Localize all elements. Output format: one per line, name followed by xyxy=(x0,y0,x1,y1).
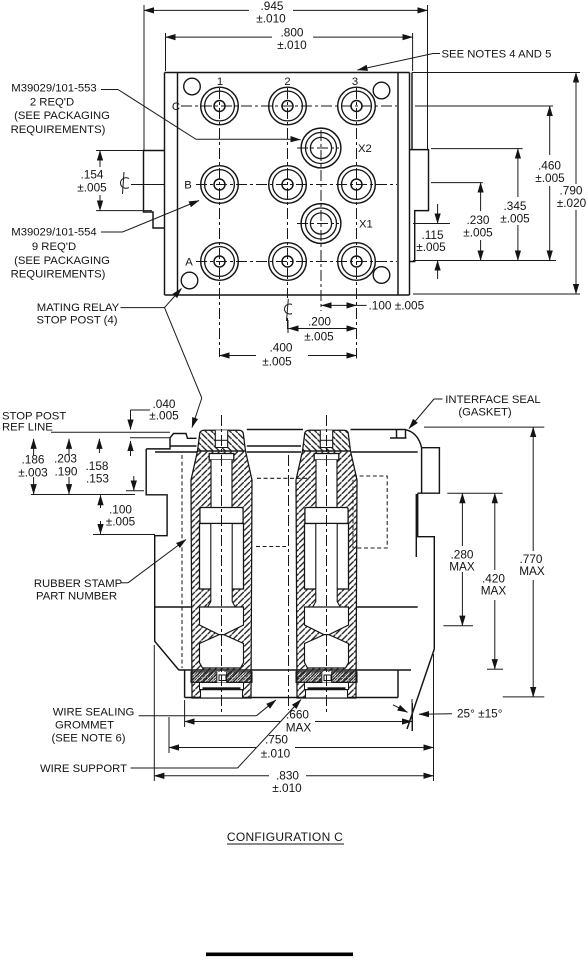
svg-text:(SEE PACKAGING: (SEE PACKAGING xyxy=(14,110,110,122)
svg-text:B: B xyxy=(184,180,192,192)
svg-text:MAX: MAX xyxy=(286,720,312,734)
dimension .750 +-.010 xyxy=(169,654,434,781)
svg-text:3: 3 xyxy=(352,76,358,88)
svg-text:2 REQ'D: 2 REQ'D xyxy=(30,96,74,108)
contact C2 xyxy=(269,87,307,125)
hidden lines (dashed) xyxy=(182,455,387,668)
svg-text:X1: X1 xyxy=(359,219,373,231)
dimension .800 +-.010 xyxy=(166,33,413,71)
mating relay stop post hole top-right xyxy=(373,82,390,99)
svg-text:.100 ±.005: .100 ±.005 xyxy=(369,299,425,313)
svg-text:±.005: ±.005 xyxy=(149,408,179,422)
dimension .100 +-.005 (left) xyxy=(93,495,155,534)
svg-text:M39029/101-553: M39029/101-553 xyxy=(11,83,96,95)
centerline symbol row B xyxy=(120,172,164,194)
dimension .280 MAX xyxy=(461,493,463,626)
contact X1 xyxy=(301,204,341,244)
contact A2 xyxy=(269,243,307,281)
svg-text:INTERFACE SEAL: INTERFACE SEAL xyxy=(445,394,540,406)
svg-text:25° ±15°: 25° ±15° xyxy=(457,707,503,721)
svg-text:(SEE NOTE 6): (SEE NOTE 6) xyxy=(51,733,125,745)
label MATING RELAY STOP POST (4) xyxy=(37,289,202,428)
wire support tray xyxy=(179,670,411,698)
centerline column 3 xyxy=(356,88,358,359)
svg-text:±.020: ±.020 xyxy=(557,196,587,210)
svg-text:SEE NOTES 4 AND 5: SEE NOTES 4 AND 5 xyxy=(442,49,552,61)
dimension .945 +-.010 (overall width) xyxy=(144,5,428,151)
svg-text:MAX: MAX xyxy=(449,560,475,574)
svg-text:.153: .153 xyxy=(86,472,109,486)
dimension .200 +-.005 xyxy=(288,320,357,333)
contact B1 xyxy=(201,166,239,204)
svg-text:(GASKET): (GASKET) xyxy=(458,407,512,419)
cavity / contact assembly right xyxy=(296,415,357,713)
label INTERFACE SEAL (GASKET) xyxy=(409,394,541,429)
svg-text:PART NUMBER: PART NUMBER xyxy=(36,591,117,603)
centerline X1 xyxy=(297,223,339,225)
view centerline between cavities xyxy=(288,455,290,710)
svg-text:STOP POST (4): STOP POST (4) xyxy=(37,315,118,327)
svg-text:(SEE PACKAGING: (SEE PACKAGING xyxy=(14,255,110,267)
svg-text:REQUIREMENTS): REQUIREMENTS) xyxy=(11,269,106,281)
label WIRE SUPPORT xyxy=(40,700,301,776)
mating relay stop post hole top-left xyxy=(184,78,201,95)
contact A1 xyxy=(201,243,239,281)
connector body (face view) outline xyxy=(165,73,413,296)
svg-text:RUBBER STAMP: RUBBER STAMP xyxy=(34,578,122,590)
cavity / contact assembly left xyxy=(191,415,252,713)
dimension .770 MAX xyxy=(532,427,534,697)
label M39029/101-553 xyxy=(11,83,301,140)
dimensions .186/.203/.190/.158/.153 stack xyxy=(31,439,144,495)
svg-text:±.005: ±.005 xyxy=(416,240,446,254)
svg-text:CONFIGURATION C: CONFIGURATION C xyxy=(227,830,343,844)
centerline row C xyxy=(181,105,397,107)
dimension .100 +-.005 xyxy=(322,304,367,306)
svg-text:.154: .154 xyxy=(81,168,104,182)
svg-text:9 REQ'D: 9 REQ'D xyxy=(32,241,76,253)
svg-text:MATING RELAY: MATING RELAY xyxy=(37,302,120,314)
svg-text:±.005: ±.005 xyxy=(500,212,530,226)
contact B2 xyxy=(269,166,307,204)
dimension .830 +-.010 xyxy=(154,645,433,781)
centerline column X xyxy=(320,130,322,311)
svg-text:±.005: ±.005 xyxy=(463,226,493,240)
mating relay stop post hole bottom-left xyxy=(181,272,198,289)
svg-text:±.005: ±.005 xyxy=(262,354,292,368)
contact X2 xyxy=(301,128,341,168)
svg-text:.400: .400 xyxy=(270,340,293,354)
label SEE NOTES 4 AND 5 xyxy=(358,49,552,71)
svg-text:REF LINE: REF LINE xyxy=(2,422,53,434)
dimension .660 MAX xyxy=(185,699,412,731)
svg-text:.190: .190 xyxy=(55,465,78,479)
section body outline right side xyxy=(407,448,439,729)
svg-text:1: 1 xyxy=(217,76,223,88)
dimension .115 +-.005 xyxy=(437,204,439,279)
svg-text:±.003: ±.003 xyxy=(18,466,48,480)
label RUBBER STAMP PART NUMBER xyxy=(34,540,186,603)
svg-text:MAX: MAX xyxy=(519,564,545,578)
contact A3 xyxy=(338,243,376,281)
right polarizing wing xyxy=(410,150,429,262)
label WIRE SEALING GROMMET (SEE NOTE 6) xyxy=(51,700,275,745)
svg-text:2: 2 xyxy=(284,76,290,88)
svg-text:.203: .203 xyxy=(54,452,77,466)
contact C3 xyxy=(338,87,376,125)
svg-text:±.010: ±.010 xyxy=(277,38,307,52)
svg-text:WIRE SEALING: WIRE SEALING xyxy=(53,707,135,719)
svg-text:±.005: ±.005 xyxy=(77,181,107,195)
extension lines right of section xyxy=(424,427,544,697)
contact C1 xyxy=(201,87,239,125)
interior wall line right xyxy=(415,494,417,557)
svg-text:REQUIREMENTS): REQUIREMENTS) xyxy=(11,124,106,136)
dimension .460 +-.005 xyxy=(549,106,551,261)
svg-text:C: C xyxy=(172,101,180,113)
centerline column 1 xyxy=(219,88,221,357)
svg-text:±.010: ±.010 xyxy=(256,12,286,26)
dimension .400 +-.005 xyxy=(220,355,357,357)
dimension 25 deg +-15 deg xyxy=(393,703,452,731)
label M39029/101-554 xyxy=(11,201,199,281)
dimension .154 +-.005 with extension lines xyxy=(96,151,152,211)
svg-text:X2: X2 xyxy=(358,143,372,155)
svg-text:±.010: ±.010 xyxy=(272,781,302,795)
svg-text:M39029/101-554: M39029/101-554 xyxy=(11,227,96,239)
section body outline left side xyxy=(146,430,421,671)
svg-text:±.005: ±.005 xyxy=(106,515,136,529)
svg-text:.660: .660 xyxy=(286,707,309,721)
svg-text:±.005: ±.005 xyxy=(304,330,334,344)
svg-text:±.010: ±.010 xyxy=(261,746,291,760)
section view: stop post ref lines xyxy=(51,432,170,438)
dimension .230 +-.005 xyxy=(480,183,482,261)
centerline column 2 xyxy=(287,88,289,332)
dimension .040 +-.005 xyxy=(131,410,151,456)
contact B3 xyxy=(338,166,376,204)
body interior step lines xyxy=(155,606,418,608)
svg-text:.200: .200 xyxy=(308,314,331,328)
footer rule bar xyxy=(206,953,353,957)
extension lines right side xyxy=(412,73,580,295)
svg-text:A: A xyxy=(185,257,193,269)
dimension .345 +-.005 xyxy=(517,149,519,261)
svg-text:.186: .186 xyxy=(22,453,45,467)
mating relay stop post hole bottom-right xyxy=(373,267,390,284)
centerline row A xyxy=(196,261,397,263)
svg-text:MAX: MAX xyxy=(481,583,507,597)
dimension .420 MAX xyxy=(494,493,496,669)
centerline symbol column 2 xyxy=(285,299,292,321)
svg-text:WIRE SUPPORT: WIRE SUPPORT xyxy=(40,763,127,775)
centerline X2 xyxy=(297,147,339,149)
dimension .790 +-.020 xyxy=(575,73,577,295)
svg-text:GROMMET: GROMMET xyxy=(55,720,114,732)
left polarizing wing xyxy=(144,151,165,229)
centerline row B xyxy=(131,184,397,186)
svg-text:.750: .750 xyxy=(265,732,288,746)
